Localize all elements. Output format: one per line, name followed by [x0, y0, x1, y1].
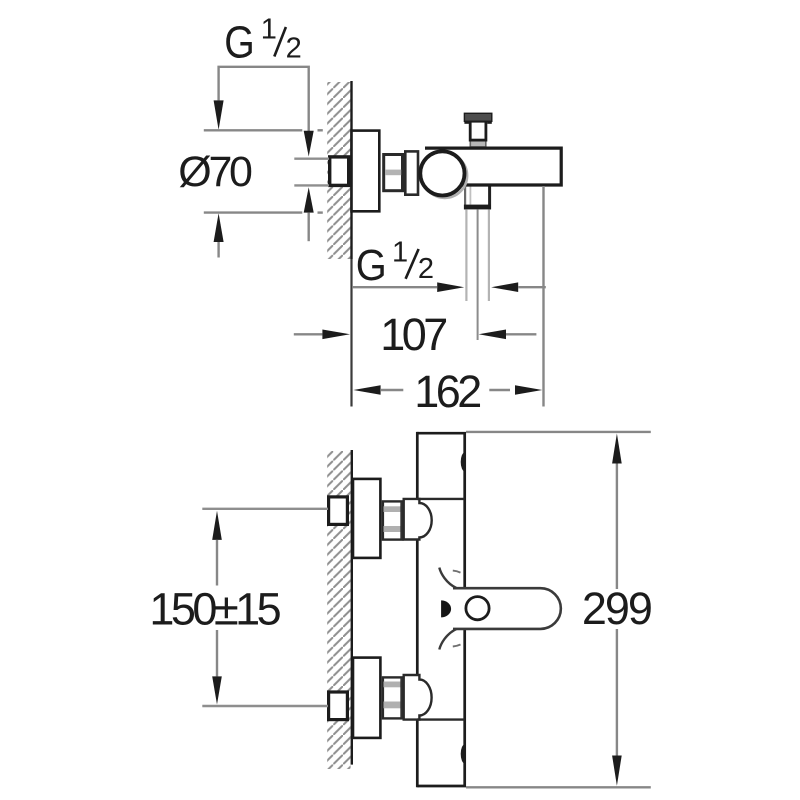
svg-text:2: 2 [418, 253, 434, 285]
svg-text:299: 299 [582, 583, 651, 634]
svg-text:162: 162 [414, 366, 480, 417]
svg-text:G: G [356, 242, 387, 290]
svg-text:G: G [224, 16, 255, 67]
svg-text:1: 1 [392, 237, 408, 269]
svg-text:1: 1 [261, 13, 277, 45]
svg-text:2: 2 [286, 32, 302, 64]
svg-text:150±15: 150±15 [149, 584, 280, 635]
svg-text:Ø70: Ø70 [178, 148, 252, 196]
svg-text:107: 107 [380, 309, 446, 360]
